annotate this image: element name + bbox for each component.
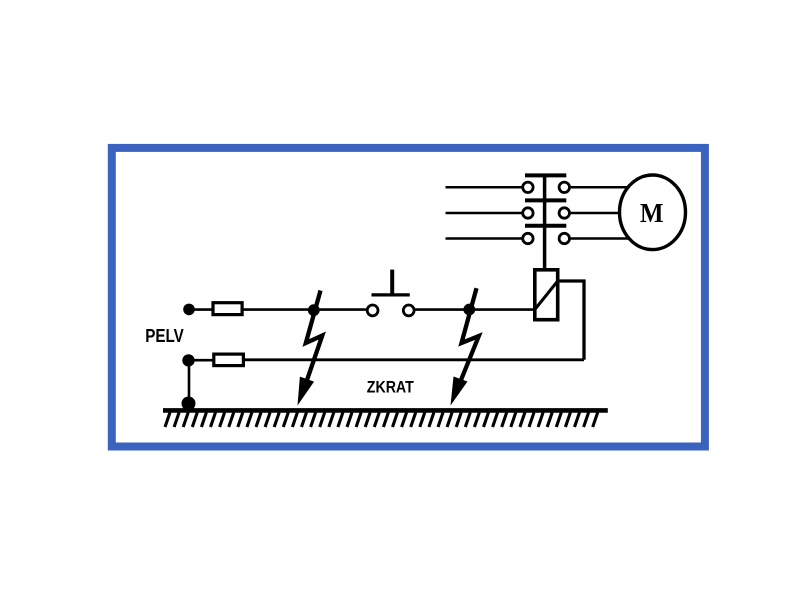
wire terminal to fuse F2 xyxy=(189,359,214,362)
node earth connection xyxy=(182,397,196,411)
svg-text:ZKRAT: ZKRAT xyxy=(367,378,414,396)
contactor contact pole 2 left xyxy=(523,208,533,218)
push button S1 bar xyxy=(372,293,410,296)
node junction right bolt xyxy=(463,304,475,316)
wire fuse F2 to coil return xyxy=(243,358,584,361)
wire terminal to fuse F1 xyxy=(189,308,213,311)
contactor contact pole 2 right xyxy=(559,208,569,218)
short-circuit bolt left xyxy=(298,291,323,406)
motor M1 body xyxy=(620,175,686,250)
wire L1 supply left segment xyxy=(446,186,522,189)
contactor K1 bridge bar pole 1 xyxy=(525,173,566,177)
wire L3 to motor xyxy=(571,237,640,240)
wire fuse F1 to push button xyxy=(242,308,367,311)
wire L2 supply left segment xyxy=(446,212,522,215)
contactor coil K1 diagonal xyxy=(534,280,559,311)
wire PELV earth link xyxy=(188,360,191,404)
wire coil output to return xyxy=(560,281,585,360)
contactor contact pole 3 right xyxy=(559,233,569,243)
ground hatching xyxy=(165,412,598,427)
push button S1 stem xyxy=(390,270,394,295)
wire L1 to motor xyxy=(571,186,640,189)
wire L2 to motor xyxy=(571,212,640,215)
contactor coil K1 xyxy=(535,270,558,320)
node junction left bolt xyxy=(308,304,320,316)
blue border frame xyxy=(112,148,705,447)
contactor K1 bridge bar pole 3 xyxy=(525,224,566,228)
push button S1 contact right xyxy=(403,305,414,316)
ground bus line xyxy=(163,408,608,413)
contactor contact pole 1 right xyxy=(559,182,569,192)
contactor K1 bridge bar pole 2 xyxy=(525,198,566,202)
short-circuit bolt right xyxy=(451,288,479,405)
svg-text:M: M xyxy=(640,197,664,228)
wire push button to coil xyxy=(414,308,533,311)
wire L3 supply left segment xyxy=(446,237,522,240)
contactor K1 actuator link xyxy=(543,175,547,268)
push button S1 contact left xyxy=(367,305,378,316)
node PELV terminal bottom xyxy=(182,354,194,366)
fuse F2 xyxy=(214,354,244,366)
contactor contact pole 1 left xyxy=(523,182,533,192)
node PELV terminal top xyxy=(183,304,195,316)
svg-text:PELV: PELV xyxy=(145,325,184,346)
fuse F1 xyxy=(213,303,242,315)
contactor contact pole 3 left xyxy=(523,233,533,243)
